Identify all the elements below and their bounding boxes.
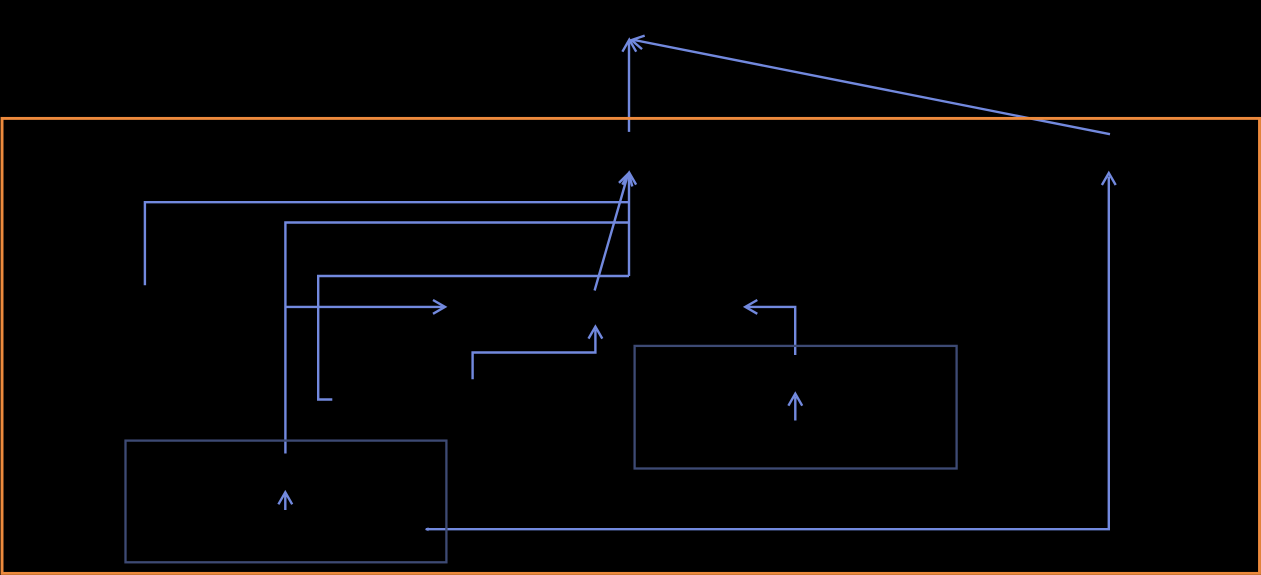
arrow: horizontal right-pointing at y=307 bbox=[285, 306, 443, 308]
arrowhead rotated -78.5deg at (630.3,38.2) bbox=[630, 33, 644, 49]
arrow: top diagonal from (1111,137) to tip at (630,38.5) bbox=[633, 40, 1111, 135]
arrowhead up at (629.2,170.5) bbox=[622, 173, 636, 185]
box B2 (dark blue, middle right) bbox=[635, 346, 957, 469]
arrowhead up at (1108.8,172.2) bbox=[1102, 173, 1116, 185]
arrowhead up at (285.3,491.5) bbox=[278, 492, 292, 504]
arrowhead up at (595.4,325.8) bbox=[589, 327, 603, 339]
wire: y=222 horizontal with long drop at x=285 into box B1 bbox=[285, 223, 629, 454]
arrow: top vertical shaft x=629 from y=132 to arrowhead at y=37 bbox=[628, 42, 630, 132]
wire: y=276 horizontal with drop at x=318 and foot bbox=[318, 276, 629, 400]
box B1 (dark blue, bottom left) bbox=[126, 441, 447, 563]
start taper of bottom wire bbox=[425, 527, 429, 531]
arrow: left-pointing above box B2 with drop at x=795 bbox=[747, 307, 795, 355]
arrow: small up arrow inside box B2 bbox=[794, 397, 796, 421]
arrowhead up at (629.3,37.3) bbox=[622, 40, 636, 52]
arrow: lower diagonal from (594.9,293) to same tip bbox=[595, 174, 629, 291]
arrowhead up at (795.3,392.9) bbox=[788, 394, 802, 406]
arrowhead right at (445.8,306.9) bbox=[433, 300, 445, 314]
wire+arrow: long bottom horizontal y=529 rising at x=1109 to arrowhead at y=172 bbox=[426, 177, 1109, 530]
arrow: small up arrow inside box B1 bbox=[284, 495, 286, 510]
wire+arrow: small up arrow at x=595 with horizontal y=352.5 and drop at x=472.6 bbox=[473, 330, 596, 380]
arrow: vertical x=629 mid segment up to arrowhead at y=171 bbox=[628, 176, 630, 276]
arrowhead left at (744.5,306.9) bbox=[745, 300, 757, 314]
arrowhead rotated 15deg at (628.9,171) bbox=[619, 171, 635, 186]
orange cluster/container border bbox=[2, 118, 1259, 573]
wire: left L-shape at y=202 bbox=[145, 202, 629, 285]
